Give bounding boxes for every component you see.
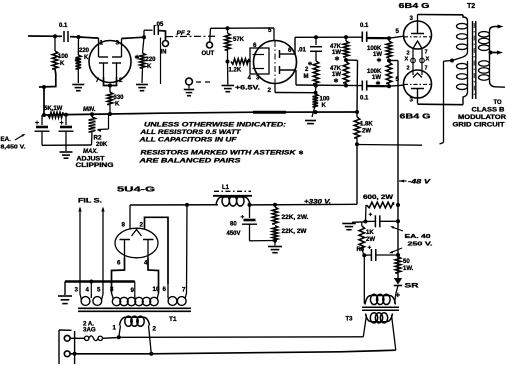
wire filament hook [440, 143, 444, 145]
wire bottom plate down [295, 70, 297, 85]
plug bracket [58, 330, 60, 364]
resistor R 57K [225, 33, 231, 50]
svg-text:T2: T2 [467, 3, 475, 10]
node 57K top [226, 26, 230, 30]
svg-text:+: + [368, 245, 372, 252]
node bus pot top [90, 112, 94, 116]
tube V1 left cathode [99, 62, 108, 64]
svg-text:80: 80 [230, 222, 237, 228]
ground under 220K-2 [136, 84, 148, 86]
ground clip bottom [60, 151, 73, 153]
svg-text:22K, 2W.: 22K, 2W. [282, 215, 309, 221]
resistor R 100K-1 stem [388, 38, 390, 41]
wire 100K bottom elbow [39, 69, 56, 87]
node T1 primary right [149, 352, 153, 356]
svg-text:6: 6 [163, 286, 167, 293]
svg-text:250 V.: 250 V. [408, 242, 434, 248]
node 1.8K bottom [355, 142, 359, 146]
svg-text:20K: 20K [96, 141, 108, 148]
svg-text:TO: TO [494, 100, 503, 106]
resistor R 22K-2 [272, 226, 278, 241]
node bus 100K cathode [314, 110, 318, 114]
arrow -48V [399, 180, 407, 182]
wire B+ riser [356, 60, 359, 112]
svg-text:5U4-G: 5U4-G [117, 185, 155, 194]
svg-text:ALL RESISTORS 0.5 WATT: ALL RESISTORS 0.5 WATT [139, 129, 242, 136]
resistor R 220K [76, 55, 82, 69]
wire V3 plate to T2 [418, 14, 464, 16]
potentiometer R2 lower stem [91, 132, 94, 145]
wire mains top continues [119, 336, 363, 339]
svg-text:CLIPPING: CLIPPING [76, 163, 114, 169]
svg-text:EA.: EA. [1, 136, 12, 143]
PF2 box left edge [160, 38, 162, 85]
svg-text:1W: 1W [373, 52, 382, 58]
wire bottom plate bus [296, 84, 362, 87]
node 100K mid [387, 59, 391, 63]
svg-text:0.1: 0.1 [59, 23, 68, 29]
svg-text:22K, 2W: 22K, 2W [282, 229, 307, 235]
tube V2 inner bar 1 [253, 54, 265, 56]
svg-text:X: X [405, 57, 409, 63]
wire V1 pin3 to coupling [122, 37, 145, 38]
svg-text:1W: 1W [372, 75, 381, 81]
capacitor C2 lower stem [41, 132, 43, 146]
resistor R 1.2K [231, 59, 249, 65]
wire SR to T3 [396, 286, 398, 294]
resistor R 47K-2 [343, 62, 349, 84]
svg-text:4: 4 [248, 75, 252, 82]
label EA arrow [15, 135, 24, 141]
filament wires between tubes [412, 49, 414, 76]
svg-text:5: 5 [97, 287, 101, 294]
resistor R 50 1W [395, 257, 401, 274]
wire T2 sec mid lead [489, 51, 491, 60]
wire to 330K [109, 86, 111, 93]
svg-text:K: K [322, 103, 327, 109]
filament loop left [411, 58, 416, 63]
svg-text:600, 2W: 600, 2W [363, 195, 393, 201]
T1 core [78, 307, 191, 309]
filament loop right [420, 58, 425, 63]
svg-text:X: X [426, 57, 430, 63]
svg-text:450V: 450V [227, 231, 241, 237]
capacitor C8 40uF plates [374, 215, 376, 227]
svg-text:ALL CAPACITORS IN UF: ALL CAPACITORS IN UF [138, 137, 237, 144]
svg-text:5: 5 [396, 28, 400, 35]
node .05 junction [142, 35, 146, 39]
tube V4 plate [411, 88, 424, 90]
wire pin2 to 100K [275, 92, 316, 94]
T1 primary right leg [149, 326, 152, 354]
T3 secondary winding [365, 296, 396, 305]
svg-text:0.1: 0.1 [360, 23, 369, 29]
svg-text:R3: R3 [357, 247, 365, 253]
svg-text:+: + [60, 120, 64, 127]
svg-text:L1: L1 [222, 185, 230, 191]
T2 secondary bottom coil [489, 60, 491, 81]
node bleeder bottom [273, 239, 277, 243]
wire main bus thick part [253, 111, 286, 114]
node fil CT [89, 280, 93, 284]
resistor R 100K stem [54, 36, 56, 51]
svg-text:7: 7 [96, 77, 100, 84]
fil line 2 [102, 209, 104, 295]
tube V4 grid dash [404, 83, 431, 85]
resistor R 2M [313, 61, 319, 84]
T1 rect fil winding [168, 297, 177, 306]
wire B+ top [130, 204, 218, 206]
node T2 sec mid [489, 51, 493, 55]
node 100K-1 top [387, 36, 391, 40]
T1 primary winding [120, 317, 150, 325]
node cathodes junction [108, 84, 112, 88]
svg-text:3: 3 [75, 287, 79, 294]
T3 core [362, 306, 399, 308]
resistor R 100K [52, 51, 58, 69]
T1 fil winding A legs [80, 294, 82, 300]
node junction left bus [42, 85, 46, 89]
wire 5U4 pin2 path [145, 217, 169, 284]
svg-text:2: 2 [153, 326, 157, 333]
resistor R 1.8K 2W [354, 117, 360, 138]
svg-text:0.1: 0.1 [360, 96, 369, 102]
svg-text:3: 3 [410, 97, 414, 104]
svg-text:IN: IN [161, 50, 167, 56]
tube V5 left plate [120, 239, 131, 241]
svg-text:T1: T1 [169, 316, 177, 323]
wire 5U4 pin8 riser [129, 205, 131, 229]
wire filament level [357, 144, 422, 147]
ground small under bus [305, 120, 316, 122]
wire C4 to IN jack [158, 31, 165, 41]
svg-text:-48 V: -48 V [408, 180, 432, 186]
T1 pin4 lead [90, 282, 92, 295]
capacitor C6 0.1 plates [361, 81, 363, 91]
tube V2 envelope [254, 41, 297, 84]
jack OUT [207, 42, 213, 48]
resistor R 2M stem [315, 51, 317, 61]
wire to 6B4 bottom grid [389, 85, 404, 86]
wire V1 cathodes join [104, 77, 117, 86]
tube V1 right diode plate [112, 56, 122, 58]
tube V1 pin1 lead [98, 38, 100, 57]
node 47K-2 bottom [344, 84, 348, 88]
svg-text:8: 8 [122, 222, 126, 229]
svg-text:2: 2 [268, 87, 272, 94]
node at 100K top [53, 34, 57, 38]
capacitor C3 lower stem [65, 132, 67, 146]
resistor R 5K 1W [48, 112, 63, 118]
tube V4 envelope [404, 70, 432, 98]
svg-text:K: K [115, 102, 120, 108]
T3 primary right leg [392, 315, 396, 350]
tube V1 left diode plate [99, 56, 109, 58]
heavy CT line [65, 280, 135, 282]
capacitor C3 8uF [60, 126, 72, 129]
svg-text:RESISTORS MARKED WITH ASTERISK: RESISTORS MARKED WITH ASTERISK [141, 150, 297, 157]
svg-text:CLASS B: CLASS B [472, 108, 506, 114]
wire OUT up [209, 28, 212, 42]
tube V2 grid box [250, 48, 269, 74]
jack ground stem [188, 85, 190, 89]
choke L1 core [214, 190, 251, 192]
wire C1 to clipper pin 1 [70, 37, 99, 38]
wire input top-left [28, 35, 62, 37]
svg-text:MIN.: MIN. [83, 107, 96, 113]
ground under 220K [72, 84, 84, 86]
T1 HV legs [112, 293, 114, 300]
node bias left top [364, 220, 368, 224]
tube V3 filament [413, 41, 422, 49]
svg-text:5K,1W: 5K,1W [44, 106, 63, 112]
T1 pin9 lead [134, 282, 136, 296]
svg-text:+: + [241, 214, 245, 221]
svg-text:1W.: 1W. [403, 266, 414, 272]
node 600 right [396, 203, 400, 207]
T1 HV winding [112, 297, 120, 305]
ground stem clip [65, 145, 67, 151]
node 47K mid [344, 58, 348, 62]
node T2 CT [450, 59, 454, 63]
wire to 6B4 top grid [389, 36, 404, 38]
wire pin4 to T1 pin10 [148, 257, 159, 293]
capacitor C1 0.1 plates [63, 31, 65, 42]
T1 fil winding A [81, 297, 90, 306]
wire 220K-2 to ground [141, 68, 144, 83]
capacitor C10 80uF stem [249, 205, 251, 218]
svg-text:220: 220 [79, 48, 90, 54]
svg-text:7: 7 [425, 50, 428, 56]
T3 primary winding [366, 314, 393, 322]
svg-text:ARE BALANCED PAIRS: ARE BALANCED PAIRS [138, 158, 242, 165]
resistor R 600 2W [367, 202, 394, 208]
svg-text:1K: 1K [366, 230, 374, 236]
capacitor C9 right lead [376, 254, 398, 256]
svg-text:2: 2 [140, 222, 144, 229]
wire C6 to grid thick [367, 85, 389, 87]
node 100K top [314, 91, 318, 95]
svg-text:OUT: OUT [202, 51, 215, 57]
tube V3 grid dash [404, 36, 431, 38]
svg-text:4: 4 [86, 287, 90, 294]
svg-text:UNLESS OTHERWISE INDICATED:: UNLESS OTHERWISE INDICATED: [144, 122, 286, 129]
svg-text:.05: .05 [155, 22, 164, 28]
resistor R 100K-2 [386, 62, 392, 84]
tube V5 filament [132, 230, 142, 237]
arrow into grid box [249, 61, 250, 63]
wire 220K to ground [77, 69, 79, 83]
T2 core dash [473, 23, 475, 97]
svg-text:2: 2 [407, 51, 410, 57]
PF2 dashes right [196, 81, 214, 83]
svg-text:9: 9 [131, 287, 135, 294]
wire bias rail [397, 61, 399, 279]
wire R3 bottom [362, 249, 364, 255]
svg-text:1W: 1W [332, 72, 341, 78]
arrow to C8 [392, 227, 403, 231]
T2 secondary top coil [489, 31, 491, 51]
potentiometer R2 arm [108, 115, 110, 130]
resistor R 22K-1 [272, 207, 278, 224]
resistor R 47K-1 stem [345, 37, 347, 41]
tube V1 right cathode [112, 62, 121, 64]
capacitor C5 0.1 plates [361, 32, 363, 43]
node 1.2K junction [226, 60, 230, 64]
tube V2 inner bar 2 [253, 68, 265, 70]
choke L1 winding [216, 197, 250, 205]
capacitor C8 right lead [380, 220, 398, 222]
svg-text:8,450 V.: 8,450 V. [1, 145, 27, 151]
tube V3 envelope [404, 21, 432, 49]
wire C5 to grid thick [367, 37, 389, 39]
capacitor C3 8uF stem [65, 115, 67, 125]
capacitor C7 .01 plates [310, 46, 322, 48]
svg-text:6: 6 [253, 42, 257, 49]
svg-text:+: + [369, 212, 373, 219]
tube V2 top plate [279, 50, 281, 58]
jack ground circle [186, 78, 193, 85]
svg-text:EA. 40: EA. 40 [405, 234, 431, 240]
wire 1.8K bottom [356, 138, 358, 144]
tube V2 pin2 stem [274, 83, 276, 93]
svg-text:1.2K: 1.2K [229, 68, 242, 74]
wire pin6 to T1 pin8 [112, 257, 125, 293]
svg-text:6B4 G: 6B4 G [399, 3, 431, 10]
tube V3 pin3 stem [417, 15, 419, 23]
fil line 1 [79, 209, 81, 295]
svg-text:2: 2 [407, 66, 410, 72]
tube V1 clipper envelope [89, 41, 131, 83]
diode SR [394, 278, 402, 285]
T2 primary bottom coil [467, 61, 469, 92]
wire OUT to pin5 [211, 27, 275, 29]
resistor R3 1K 2W [359, 226, 365, 249]
svg-text:5: 5 [268, 27, 272, 34]
wire top plate up [294, 37, 296, 54]
svg-text:SR: SR [405, 283, 419, 290]
svg-text:6: 6 [117, 260, 121, 267]
wire T2 sec bottom lead [490, 81, 506, 87]
wire T2 primary top lead [463, 15, 468, 21]
tube V2 bottom plate [279, 66, 281, 74]
node 100K-2 bottom [387, 84, 391, 88]
svg-text:MAX.: MAX. [83, 149, 98, 155]
wire fuse to T1 [103, 337, 119, 340]
potentiometer R2 stem [91, 114, 93, 117]
resistor R 100K-1 [386, 41, 392, 58]
wire B+ tap to T1 pin7 [186, 205, 189, 293]
ground stem heavy [64, 282, 66, 296]
svg-text:K: K [60, 61, 65, 67]
jack IN [163, 41, 169, 47]
wire 57K to 1.2K [227, 50, 229, 62]
svg-text:2W: 2W [362, 129, 371, 135]
node C9 rail [396, 253, 400, 257]
svg-text:K: K [147, 64, 152, 70]
capacitor C2 8uF [36, 126, 48, 129]
svg-text:3: 3 [256, 75, 260, 82]
T3 secondary right leg [395, 293, 397, 304]
svg-text:100: 100 [58, 54, 69, 60]
svg-text:330: 330 [114, 95, 125, 101]
wire choke to node [248, 204, 250, 206]
svg-text:1.8K: 1.8K [360, 122, 373, 128]
svg-text:MODULATOR: MODULATOR [458, 115, 507, 121]
svg-text:8: 8 [110, 286, 114, 293]
tube V1 pin3 lead [121, 39, 123, 58]
node C8 rail [396, 219, 400, 223]
svg-text:1W: 1W [332, 50, 341, 56]
potentiometer R2 20K [89, 117, 96, 132]
node B+ tap [185, 203, 189, 207]
capacitor C4 .05 plates [153, 25, 155, 35]
resistor R 220K-2 [140, 53, 146, 68]
capacitor C9 40uF plates [370, 249, 372, 261]
resistor R 220K stem [77, 37, 79, 55]
svg-text:57K: 57K [233, 37, 245, 43]
node bus 5K left [42, 113, 46, 117]
tube V3 plate [417, 22, 419, 34]
svg-text:7: 7 [425, 66, 428, 72]
ground under 57K [222, 85, 235, 87]
tube V4 filament [413, 73, 422, 78]
wire top plate bus [295, 36, 362, 38]
ground bias [342, 223, 356, 225]
capacitor C9 40uF left lead [364, 254, 371, 256]
wire T2 primary bottom lead [463, 92, 468, 105]
tube V2 pin5 stem [273, 28, 275, 41]
svg-text:1: 1 [113, 325, 117, 332]
node T1 primary left [117, 335, 121, 339]
resistor R 220K-2 stem [143, 37, 145, 53]
svg-text:T3: T3 [346, 317, 354, 323]
node choke out [248, 203, 252, 207]
PF2 box top dash line [166, 35, 217, 37]
capacitor C8 40uF left lead [366, 220, 376, 222]
wire plug to fuse [70, 337, 85, 339]
T3 primary left leg [363, 315, 366, 337]
node 2M bottom [314, 84, 318, 88]
svg-text:ADJUST: ADJUST [77, 157, 105, 163]
wire clip bottom [42, 144, 92, 146]
resistor R 22K-1 stem [274, 205, 276, 207]
jack ground bars [184, 89, 195, 91]
svg-text:3: 3 [116, 40, 120, 47]
svg-text:.01: .01 [298, 48, 307, 54]
T2 primary CT lead [452, 52, 468, 61]
svg-text:3AG: 3AG [83, 327, 96, 334]
fuse [85, 336, 89, 340]
ground bleeder [268, 246, 282, 248]
T2 core [472, 21, 474, 99]
wire 47K-2 bottom [345, 83, 347, 86]
wire +330 line [250, 203, 358, 206]
arrow to C9 [391, 248, 402, 253]
plug body line [74, 331, 76, 364]
svg-text:100: 100 [320, 97, 331, 103]
node bias left bottom [362, 253, 366, 257]
capacitor C7 .01 stem [315, 37, 317, 45]
T1 rect fil legs [167, 284, 169, 299]
svg-text:6: 6 [288, 47, 292, 54]
node bus 330K [108, 112, 112, 116]
plug lower pin [64, 351, 70, 357]
svg-text:10: 10 [153, 286, 160, 293]
wire to bias ground [352, 221, 366, 224]
wire V4 plate to T2 [418, 103, 464, 106]
node 47K-1 top [344, 35, 348, 39]
